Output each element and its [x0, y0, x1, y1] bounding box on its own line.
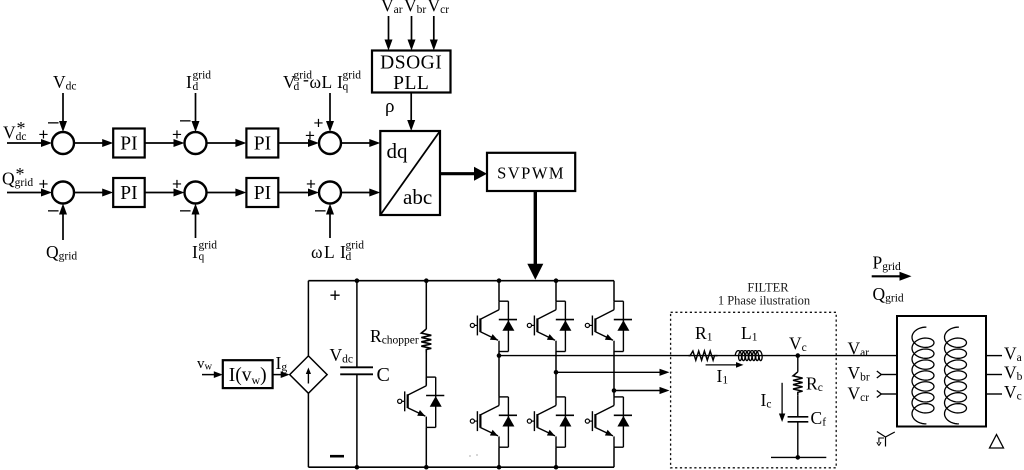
- summer S4: [52, 182, 74, 204]
- wire leg A upper from top rail: [498, 281, 500, 302]
- svg-text:d: d: [346, 251, 352, 263]
- wire Vcr arrow into DSOGI PLL: [433, 16, 435, 41]
- inductor L1: [735, 351, 762, 361]
- svg-text:+: +: [306, 175, 316, 194]
- svg-text:I: I: [192, 242, 198, 262]
- svg-text:ω: ω: [311, 242, 323, 262]
- svg-text:C: C: [377, 364, 390, 386]
- wire S3 to dq/abc block: [341, 142, 370, 144]
- wire leg C midpoint: [613, 352, 615, 397]
- block dq/abc transform: [380, 131, 440, 215]
- wire vw arrow into I(vw) block: [202, 374, 215, 376]
- wire Var arrow into DSOGI PLL: [388, 16, 390, 41]
- wire S1 to PI1: [74, 142, 103, 144]
- transistor Q4 bottom IGBT leg B: [556, 396, 565, 398]
- wire resistor to chopper IGBT: [425, 353, 427, 386]
- svg-text:PI: PI: [254, 134, 271, 155]
- capacitor C plates: [340, 366, 373, 368]
- wire S4 to PI3: [74, 192, 103, 194]
- wire filter bottom bar: [771, 456, 826, 458]
- wire leg A midpoint: [498, 352, 500, 397]
- wire Vdc feedback arrow down into S1: [62, 93, 64, 122]
- summer S5: [185, 182, 207, 204]
- block I(vw) wind current source function: [223, 360, 273, 388]
- transistor Q1 top IGBT leg A: [499, 300, 508, 302]
- transistor Q2 bottom IGBT leg A: [499, 396, 508, 398]
- PI controller PI2: [246, 129, 278, 158]
- node Vcr chevron connector: [877, 391, 882, 398]
- svg-text:PI: PI: [120, 134, 137, 155]
- block SVPWM modulator: [487, 153, 575, 191]
- wire Id_grid arrow down into S2: [195, 93, 197, 122]
- wire phase B output arrow: [556, 371, 661, 373]
- svg-text:*: *: [17, 118, 26, 138]
- wire DC-link capacitor branch lower: [356, 374, 358, 467]
- node junction dot top bus leg A: [497, 278, 502, 283]
- wire DC-link capacitor branch upper: [356, 281, 358, 367]
- wire Qgrid arrow up into S4: [62, 214, 64, 241]
- svg-text:abc: abc: [403, 185, 432, 209]
- svg-text:–: –: [48, 112, 59, 133]
- wire Vbr stub: [881, 374, 897, 376]
- PI controller PI4: [246, 178, 278, 207]
- svg-text:DSOGI: DSOGI: [380, 53, 442, 74]
- svg-text:SVPWM: SVPWM: [497, 164, 565, 183]
- wire dq/abc to SVPWM thick arrow: [440, 172, 475, 175]
- wire S6 to dq/abc block: [341, 192, 370, 194]
- wire SVPWM to inverter thick arrow: [534, 191, 537, 265]
- wire chopper branch upper: [425, 281, 427, 329]
- wire DC bus bottom rail: [308, 466, 614, 468]
- node junction dot top bus leg B: [554, 278, 559, 283]
- svg-text:PLL: PLL: [393, 73, 429, 94]
- node junction dot bottom bus leg B: [554, 465, 559, 470]
- svg-text:1 Phase ilustration: 1 Phase ilustration: [718, 294, 811, 308]
- svg-text:I: I: [186, 72, 192, 92]
- delta symbol: [990, 435, 1004, 449]
- summer S3: [319, 132, 341, 154]
- svg-text:L: L: [324, 242, 335, 262]
- wire leg C upper from top rail: [613, 281, 615, 302]
- node Vc junction dot: [796, 353, 801, 358]
- svg-text:grid: grid: [343, 70, 362, 82]
- resistor Rchopper: [421, 329, 431, 353]
- block U1 DSOGI PLL: [372, 51, 451, 93]
- svg-text:PI: PI: [120, 183, 137, 204]
- wire leg B midpoint: [555, 352, 557, 397]
- svg-text:grid: grid: [199, 240, 218, 252]
- wire Ic current arrow: [781, 383, 783, 415]
- node junction dot top bus capacitor: [355, 278, 360, 283]
- svg-text:-: -: [303, 69, 309, 89]
- wire DC bus left edge upper: [307, 281, 309, 356]
- wire I1 current arrow: [706, 364, 737, 366]
- svg-text:+: +: [172, 175, 182, 194]
- svg-text:–: –: [48, 200, 59, 221]
- wire Vb stub: [986, 374, 1002, 376]
- wire Va stub: [986, 355, 1002, 357]
- node junction dot bottom bus leg A: [497, 465, 502, 470]
- wire chopper branch lower: [425, 427, 427, 467]
- wire S5 to PI4: [207, 192, 237, 194]
- wire wLId arrow up into S6: [329, 214, 331, 239]
- summer S1: [52, 132, 74, 154]
- wire Rc to Cf: [797, 395, 799, 417]
- wire Iq_grid arrow up into S5: [195, 214, 197, 239]
- node junction dot bottom bus chopper: [424, 465, 429, 470]
- svg-text:–: –: [315, 200, 326, 221]
- wire Pgrid arrow: [872, 275, 901, 277]
- wire S2 to PI2: [207, 142, 237, 144]
- svg-text:d: d: [193, 81, 199, 93]
- svg-text:FILTER: FILTER: [747, 281, 789, 295]
- wire PI4 to summer S6: [278, 192, 309, 194]
- stray marks: [469, 455, 471, 457]
- wire Qgrid* input arrow into summer S4: [7, 192, 42, 194]
- transformer primary winding: [912, 327, 934, 424]
- svg-text:+: +: [39, 125, 49, 144]
- svg-text:grid: grid: [346, 240, 365, 252]
- resistor Rc: [793, 372, 803, 396]
- svg-text:L: L: [322, 72, 333, 92]
- svg-text:grid: grid: [193, 70, 212, 82]
- wire PI1 to summer S2: [145, 142, 175, 144]
- node junction dot top bus chopper: [424, 278, 429, 283]
- wire Vc stub: [986, 393, 1002, 395]
- wire feedforward arrow down into S3: [329, 93, 331, 122]
- wire Vbr arrow into DSOGI PLL: [411, 16, 413, 41]
- wire Vdc* input arrow into summer S1: [7, 142, 42, 144]
- summer S6: [319, 182, 341, 204]
- wire leg A lower to bottom rail: [498, 447, 500, 467]
- node Vbr chevron connector: [877, 371, 882, 378]
- node junction dot phase A tap: [497, 353, 502, 358]
- svg-text:ω: ω: [310, 72, 322, 92]
- wire phase A output line: [499, 355, 897, 357]
- svg-text:–: –: [180, 110, 191, 131]
- capacitor Cf plates: [788, 416, 809, 418]
- transistor Q6 bottom IGBT leg C: [614, 396, 623, 398]
- svg-text:I(vw): I(vw): [229, 365, 267, 387]
- svg-text:+: +: [330, 286, 341, 307]
- transistor Q5 top IGBT leg C: [614, 300, 623, 302]
- wire leg B upper from top rail: [555, 281, 557, 302]
- wire PI3 to summer S5: [145, 192, 175, 194]
- wire DC bus top rail: [308, 280, 614, 282]
- svg-text:d: d: [294, 81, 300, 93]
- svg-text:PI: PI: [254, 183, 271, 204]
- summer S2: [185, 132, 207, 154]
- svg-text:dq: dq: [387, 139, 409, 163]
- transistor Q3 top IGBT leg B: [556, 300, 565, 302]
- wire leg B lower to bottom rail: [555, 447, 557, 467]
- wye grounding symbol: [877, 432, 886, 438]
- wire Vc down to Rc: [797, 356, 799, 372]
- PI controller PI3: [113, 178, 145, 207]
- filter dashed box: [671, 312, 837, 468]
- transformer T1 box: [897, 316, 986, 427]
- wire Vcr stub: [881, 393, 897, 395]
- node junction dot bottom bus capacitor: [355, 465, 360, 470]
- PI controller PI1: [113, 129, 145, 158]
- transistor chopper IGBT with diode: [426, 376, 435, 378]
- wire I(vw) to source diamond arrow: [273, 374, 282, 376]
- svg-text:–: –: [180, 200, 191, 221]
- current source CS1 diamond: [290, 356, 327, 393]
- node junction dot phase C tap: [612, 388, 617, 393]
- wire Cf to bottom bar: [797, 422, 799, 458]
- wire PI2 to summer S3: [278, 142, 309, 144]
- svg-text:q: q: [343, 81, 349, 93]
- node junction dot phase B tap: [554, 370, 559, 375]
- wire phase C output arrow: [614, 390, 661, 392]
- svg-text:+: +: [314, 114, 324, 133]
- wire leg C lower to bottom rail: [613, 447, 615, 467]
- wire DSOGI PLL to dq/abc arrow: [410, 93, 412, 122]
- node junction dot filter bottom: [796, 455, 801, 460]
- svg-text:+: +: [39, 175, 49, 194]
- svg-text:*: *: [16, 164, 25, 184]
- wire DC bus left edge lower: [307, 393, 309, 467]
- svg-text:ρ: ρ: [385, 96, 394, 117]
- resistor R1: [689, 351, 718, 360]
- node minus label DC bus: [330, 455, 344, 458]
- svg-text:q: q: [199, 251, 205, 263]
- transformer secondary winding: [945, 327, 967, 424]
